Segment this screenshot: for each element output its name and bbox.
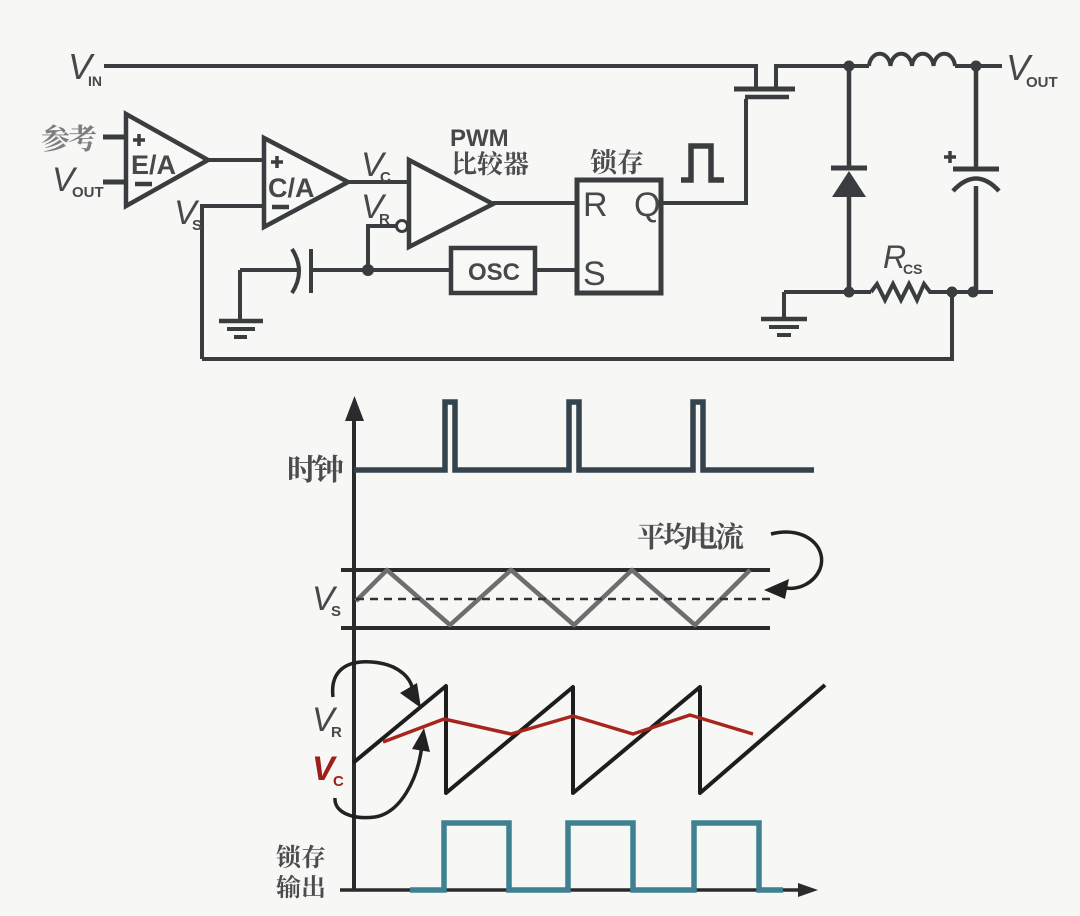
op-amp E/A [126,114,208,206]
waveform VS bound bottom [341,626,770,630]
node 锁存输出 label [277,845,301,869]
waveform clock [354,402,814,470]
node inverting input bubble [397,221,408,232]
capacitor output [944,66,999,292]
arrow average current [771,532,822,588]
capacitor timing [240,249,311,293]
svg-text:S: S [331,603,341,620]
wire VR input [368,226,396,270]
wire E/A output [208,158,264,162]
wire comparator to R [493,201,577,205]
svg-text:PWM: PWM [450,125,509,152]
wire switch rail [776,64,869,68]
waveform VS bound top [341,568,770,572]
node 锁存 label [591,149,617,175]
svg-text:OUT: OUT [1026,74,1058,91]
node 比较器 label [454,151,477,175]
waveform VS average dashed [356,598,772,601]
resistor RCS [871,284,993,300]
pulse symbol [681,146,724,180]
svg-text:S: S [192,217,202,234]
wire OSC to S [535,268,577,272]
svg-text:OSC: OSC [468,259,520,286]
wire VS to C/A inverting input [202,206,264,359]
latch 锁存 [577,180,661,293]
junction VR node [362,264,374,276]
wire VOUT input stub [103,180,126,185]
svg-text:C: C [380,169,391,186]
svg-text:R: R [583,186,608,224]
junction cap bottom [968,287,979,298]
svg-text:E/A: E/A [131,150,176,180]
wire C/A output VC [348,180,409,184]
svg-text:C/A: C/A [268,173,315,203]
waveform VS triangle [356,570,750,625]
waveform latch output [410,823,783,890]
junction feedback node [947,287,958,298]
wire bottom branch [784,290,871,294]
comparator PWM [409,160,493,247]
inductor L1 [869,54,955,66]
op-amp C/A [264,138,348,227]
wire current sense feedback [202,292,952,359]
waveform VR sawtooth [353,685,825,793]
svg-text:OUT: OUT [72,184,104,201]
arrow lower loop [335,745,422,818]
svg-text:Q: Q [634,186,660,224]
ground power stage [761,292,807,335]
wire Q to gate [661,99,746,203]
wire VIN rail [104,64,756,68]
axis vertical [352,408,356,890]
wire ref input stub [103,135,126,140]
node output junction [971,61,982,72]
wire cap to OSC [311,268,451,272]
svg-text:IN: IN [88,73,102,89]
node 平均电流 label [638,522,665,549]
svg-text:CS: CS [903,261,922,277]
node switch junction [844,61,855,72]
junction diode bottom [844,287,855,298]
arrow upper loop [333,662,413,697]
svg-text:C: C [333,773,344,790]
svg-text:S: S [583,255,606,293]
axis horizontal bottom [340,888,802,892]
waveform VC red [383,715,753,742]
oscillator OSC [451,248,535,293]
diode D1 [831,66,867,292]
node 时钟 label [289,455,317,483]
svg-text:R: R [331,724,342,741]
node 参考 label [42,124,69,151]
ground timing cap [219,270,263,337]
transistor Q1 MOSFET [734,64,795,97]
